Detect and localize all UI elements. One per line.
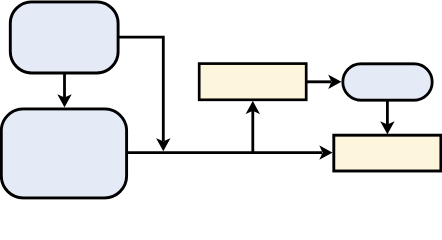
wire: B right to E (main horizontal line): [128, 151, 323, 154]
node D: right pill / stadium (blue): [343, 64, 432, 100]
arrowhead: into E (down): [380, 121, 394, 134]
arrowhead: into C (up): [246, 101, 260, 114]
wire: junction up to C bottom: [251, 111, 254, 153]
arrowhead: into B (down): [57, 94, 71, 107]
wire: C right to D: [308, 80, 332, 83]
wire: A bottom to B top: [63, 74, 66, 99]
wire: D bottom to E top: [386, 101, 389, 125]
wire: A right, over and down to junction on main line: [119, 37, 163, 141]
node A: top-left rounded state (blue): [10, 2, 118, 73]
node E: bottom-right process rectangle (yellow): [334, 135, 441, 171]
arrowhead: onto main line (down): [156, 138, 170, 151]
arrowhead: into E (right): [319, 145, 332, 159]
node C: middle process rectangle (yellow): [199, 64, 306, 100]
arrowhead: into D (right): [328, 75, 341, 89]
node B: lower-left rounded state (blue): [1, 109, 126, 198]
